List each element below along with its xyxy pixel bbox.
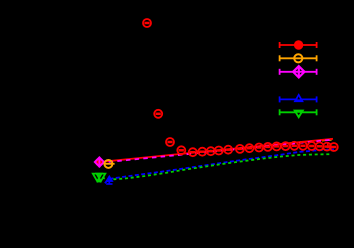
- blue dashed line: [105, 149, 334, 183]
- cluster: blue filled up-triangle with error bar: [105, 175, 114, 182]
- red fit line (straight): [100, 139, 334, 162]
- red series: open circle markers: [143, 19, 338, 156]
- orange end dashes: [322, 139, 325, 141]
- legend entry 2: orange open circle: [280, 55, 317, 61]
- legend entry 1: red filled circle: [280, 42, 317, 48]
- cluster: red filled point: [95, 158, 104, 167]
- cluster: magenta diamond with error bar: [95, 157, 104, 167]
- legend entry 4: blue filled up-triangle: [280, 96, 317, 102]
- legend entry 5: green down-triangle: [280, 109, 317, 115]
- magenta dashed line overlapping red: [100, 140, 333, 163]
- red error bar near end: [327, 143, 329, 148]
- green dashed line: [99, 154, 332, 179]
- cluster: orange open circle with caps: [103, 163, 114, 165]
- legend entry 3: magenta diamond: [280, 69, 317, 75]
- red series: error-bar cap dashes: [144, 23, 336, 152]
- orange dotted peek line under red fit line: [190, 139, 333, 153]
- cluster: green double down-triangles with error bar: [93, 173, 106, 181]
